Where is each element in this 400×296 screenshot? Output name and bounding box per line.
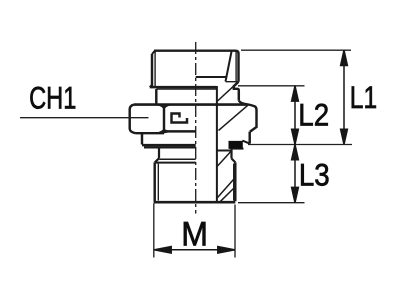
- extension line M left: [153, 204, 155, 258]
- hex section bulge right edge: [250, 110, 257, 132]
- svg-text:L3: L3: [299, 158, 330, 193]
- seal seat line right: [232, 148, 244, 150]
- extension line stud end (L3 lower reference): [238, 202, 305, 204]
- hex face boundary edge: [163, 106, 165, 131]
- extension line top (L1 upper reference): [241, 49, 351, 51]
- leader line CH1: [20, 117, 149, 119]
- section hatching neck: [217, 151, 231, 166]
- flange bottom edge: [142, 144, 196, 146]
- svg-text:L2: L2: [298, 98, 329, 133]
- seal retainer notch edge: [248, 132, 250, 144]
- labels CH1 L1 L2 L3 M: [29, 79, 377, 254]
- svg-text:CH1: CH1: [29, 80, 76, 115]
- dimension L3 line with arrowheads: [292, 145, 299, 203]
- lower neck left edge: [158, 148, 160, 159]
- right chamfer and step of sectioned shoulder: [234, 82, 239, 101]
- captive seal (filled black): [229, 141, 242, 148]
- thread end flare left: [150, 85, 152, 87]
- hex chamfer fillet bottom: [155, 128, 174, 133]
- extension line seal face (L1/L2/L3 reference): [248, 144, 352, 146]
- lower stud right outer edge: [234, 162, 236, 201]
- section hatching stud mid: [217, 180, 233, 198]
- hex chamfer fillet top: [156, 105, 173, 110]
- hex nut middle face bottom edge: [164, 130, 196, 132]
- hex nut left face with corner arcs: [130, 105, 136, 134]
- flange washer face line: [144, 146, 196, 148]
- hex nut top edge: [134, 103, 247, 106]
- lower stud left thread minor line: [157, 164, 159, 201]
- svg-text:L1: L1: [350, 79, 377, 115]
- cone bottom line: [196, 76, 227, 78]
- thread runout line right: [226, 81, 239, 83]
- centerline (vertical axis of fitting): [195, 42, 197, 214]
- dimension M line with arrowheads: [154, 247, 235, 254]
- lower neck left chamfer: [155, 158, 159, 162]
- dimension L2 line with arrowheads: [292, 86, 299, 145]
- lower neck right chamfer (section): [232, 159, 236, 163]
- washer face line under upper stud: [156, 88, 216, 90]
- internal cone (sectioned port chamfer): [226, 52, 232, 82]
- svg-text:M: M: [181, 215, 208, 253]
- extension line M right: [234, 205, 236, 258]
- lower stud left outer edge: [153, 162, 155, 201]
- section hatching hex bulge: [219, 105, 249, 131]
- upper stud thread minor-diameter lines: [155, 52, 236, 87]
- thread runout line lower: [155, 162, 196, 164]
- lower stud right thread minor line: [233, 164, 235, 201]
- section hatching stud corner: [220, 188, 235, 202]
- shoulder line under upper stud: [150, 86, 217, 88]
- extension line shoulder (L2 upper reference): [238, 85, 305, 87]
- lower stud bottom edge: [154, 201, 236, 204]
- dimension L1 line with arrowheads: [341, 50, 348, 144]
- transition curve into hex section bulge: [239, 100, 257, 110]
- seal retainer diagonal: [242, 141, 249, 144]
- flange left edge: [141, 133, 143, 144]
- lower neck right edge (section): [230, 149, 232, 159]
- upper neck left edge: [155, 89, 157, 104]
- hex nut left face bottom edge: [136, 132, 165, 134]
- bore wall line (section): [216, 86, 218, 201]
- section hatching upper: [218, 85, 236, 101]
- upper stud body outline (top port thread): [152, 51, 239, 86]
- thread runout line upper: [159, 158, 195, 160]
- manufacturer logo stamp on hex flat: [172, 114, 188, 123]
- washer face line right (section): [217, 150, 232, 152]
